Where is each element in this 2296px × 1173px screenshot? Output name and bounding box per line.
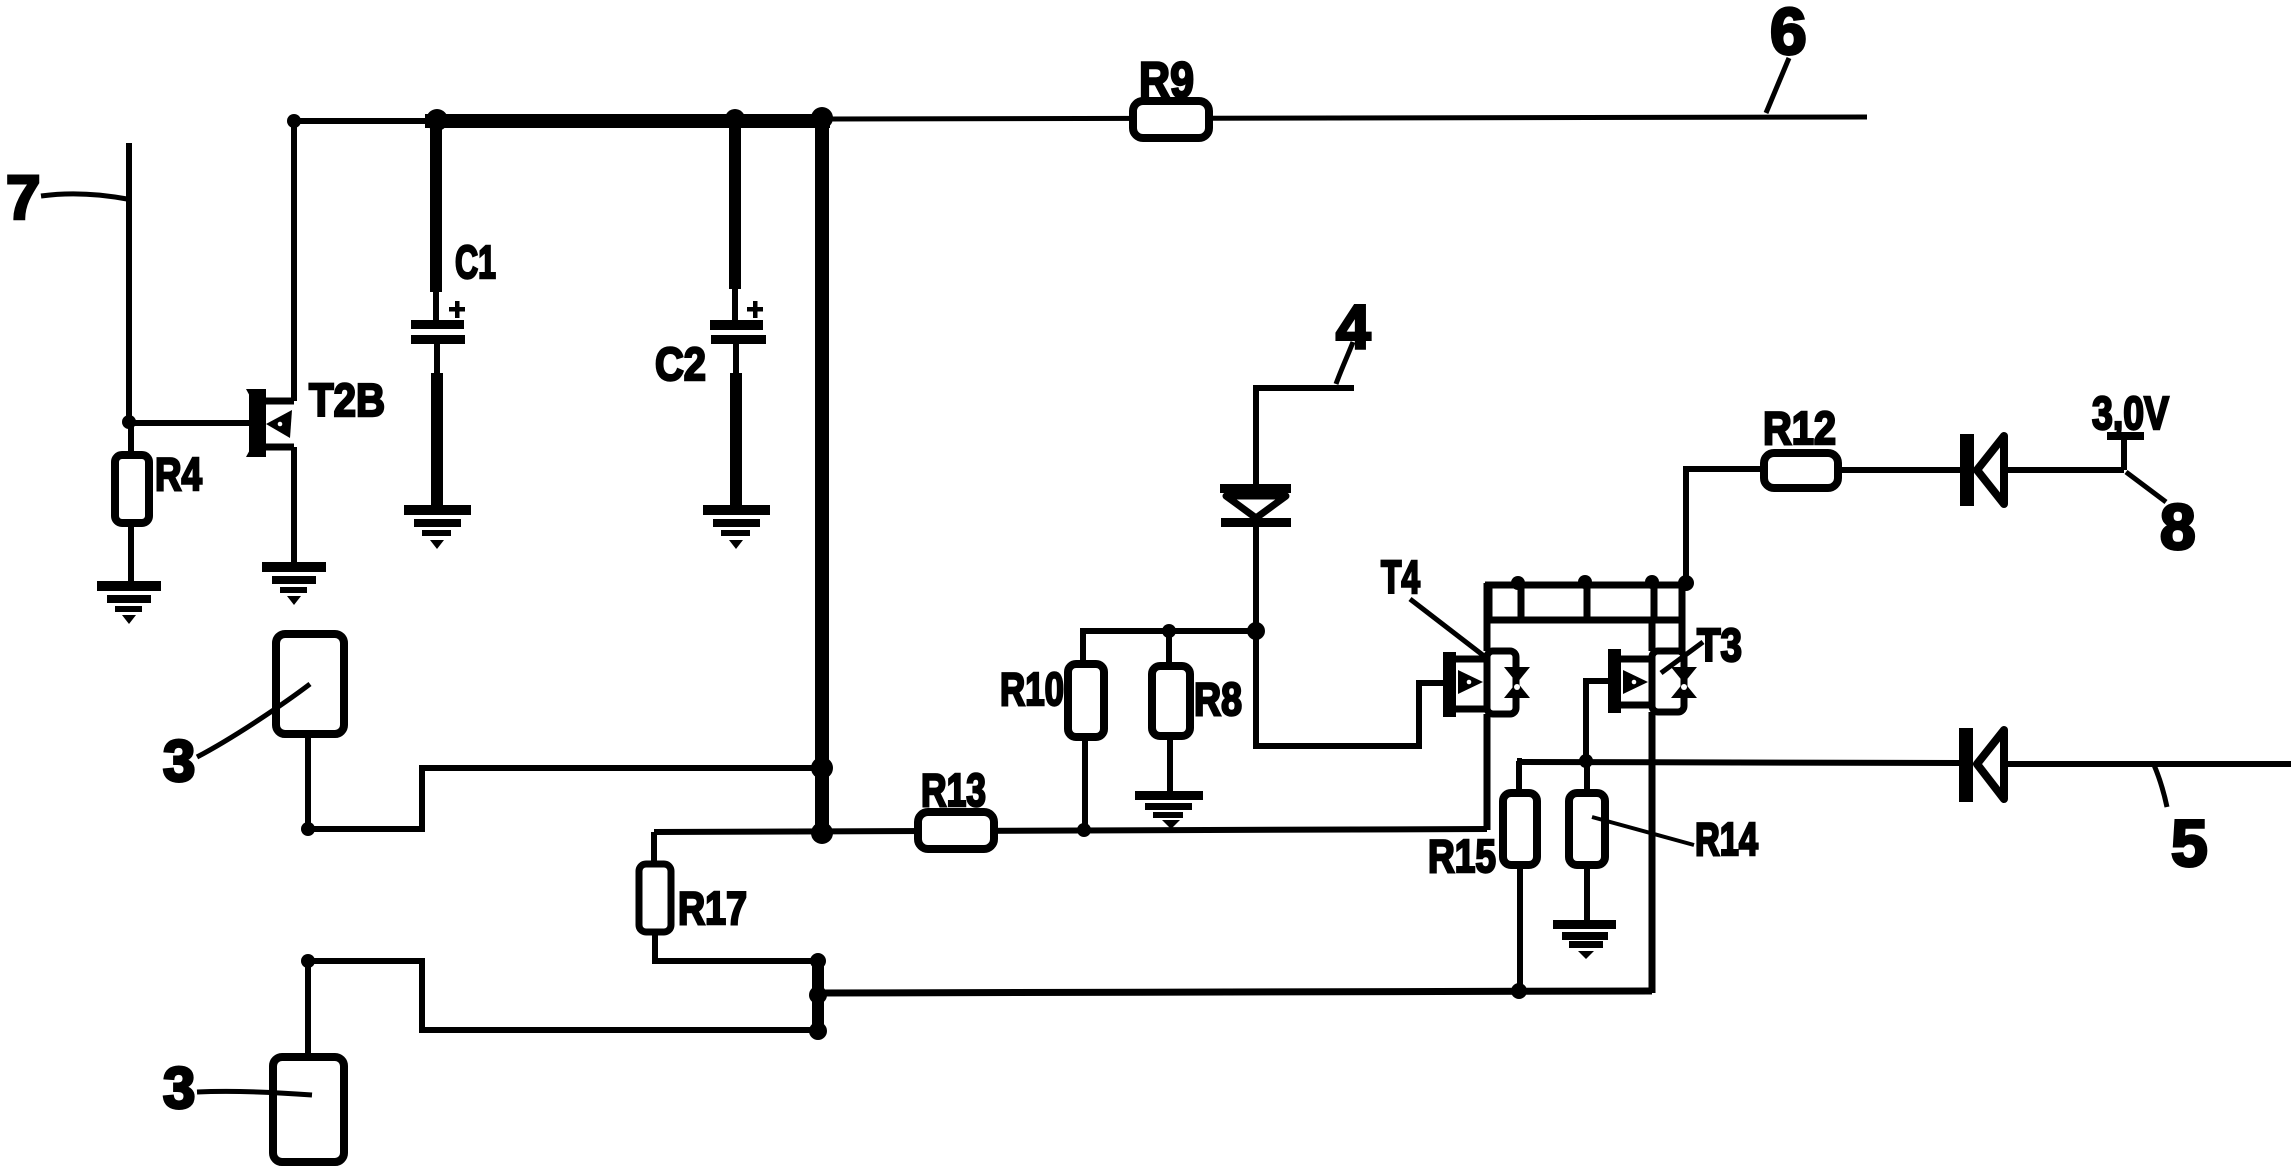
- svg-text:R13: R13: [921, 764, 986, 816]
- junction dots on ladder: [1511, 576, 1525, 590]
- node 6 pointer: [1766, 58, 1789, 113]
- transistor T2B: [246, 121, 385, 564]
- svg-text:3,0V: 3,0V: [2092, 387, 2169, 439]
- ground below R14: [1553, 920, 1616, 959]
- node 7 pointer: [41, 194, 127, 199]
- svg-text:R17: R17: [678, 882, 747, 934]
- node 8 pointer: [2126, 472, 2166, 502]
- wire R13 row horizontal: [654, 829, 1487, 832]
- resistor R17: [639, 832, 818, 961]
- junction dot R10 bottom: [1077, 823, 1091, 837]
- svg-text:4: 4: [1336, 293, 1371, 362]
- junction dot stub bottom: [809, 1022, 827, 1040]
- box 3 lower: [163, 1056, 344, 1162]
- wire bottom bus: [818, 991, 1652, 993]
- svg-text:C2: C2: [655, 338, 706, 390]
- wire node 4: [1256, 388, 1354, 484]
- svg-text:3: 3: [163, 729, 195, 794]
- wire box3 lower to stub: [308, 961, 818, 1057]
- node junction at R4 top: [122, 415, 136, 429]
- junction dot R8 top: [1162, 624, 1176, 638]
- junction dot C2 top: [725, 109, 745, 129]
- resistor R12: [1686, 402, 1961, 585]
- diode D4 (pointing down): [1220, 484, 1291, 634]
- diode D5 (pointing left): [1959, 728, 2291, 802]
- junction dot stub mid: [809, 986, 827, 1004]
- capacitor C1: [411, 121, 496, 506]
- node 5 pointer: [2154, 765, 2167, 807]
- ground below R8: [1135, 791, 1203, 829]
- wire thick stub node: [812, 958, 824, 1037]
- wire top supply bus thin left: [289, 118, 433, 124]
- svg-text:R8: R8: [1194, 673, 1242, 725]
- svg-text:R4: R4: [155, 448, 202, 500]
- junction dot diode node: [1247, 622, 1265, 640]
- junction dot box3 upper corner: [301, 822, 315, 836]
- svg-text:7: 7: [6, 164, 40, 233]
- svg-text:R15: R15: [1428, 830, 1496, 882]
- wire node 7 vertical: [126, 143, 132, 424]
- wire R12-node ladder: [1485, 585, 1690, 623]
- svg-text:3: 3: [163, 1056, 195, 1121]
- wire box3 upper to bus: [308, 734, 820, 829]
- wire node 5 horizontal: [1517, 762, 1959, 763]
- capacitor C2: [655, 121, 766, 506]
- svg-text:R12: R12: [1763, 402, 1836, 454]
- ground below C1: [404, 505, 471, 549]
- wire top bus to R9 and node 6: [828, 117, 1867, 119]
- wire main thick vertical bus: [815, 121, 829, 834]
- junction dot R14 top: [1579, 754, 1593, 768]
- junction dot stub top: [810, 953, 826, 969]
- transistor T4: [1381, 551, 1530, 830]
- svg-text:R9: R9: [1139, 52, 1194, 108]
- ground below C2: [703, 505, 770, 549]
- wire diode node to T4 gate: [1256, 631, 1446, 746]
- box 3 upper: [163, 634, 344, 794]
- svg-text:T4: T4: [1381, 551, 1420, 603]
- svg-text:R10: R10: [1000, 663, 1064, 715]
- ground below T2B: [262, 562, 326, 605]
- wire top supply bus thick: [425, 114, 830, 128]
- junction dot R15 bottom: [1511, 983, 1527, 999]
- svg-text:5: 5: [2171, 806, 2208, 880]
- resistor R13: [918, 764, 994, 849]
- svg-text:R14: R14: [1695, 813, 1758, 865]
- svg-text:T2B: T2B: [309, 374, 385, 426]
- resistor R8: [1152, 631, 1242, 792]
- wire R10 R8 top node: [1083, 631, 1256, 664]
- diode D8 (pointing left): [1960, 434, 2124, 506]
- junction dot thick bus bottom: [811, 822, 833, 844]
- junction dot box3 lower corner: [301, 954, 315, 968]
- resistor R9: [1133, 52, 1209, 138]
- junction dot T2B top: [287, 114, 301, 128]
- wire T3 gate riser: [1586, 681, 1609, 761]
- junction dot C1 top: [426, 109, 448, 131]
- wire base of T2B: [129, 420, 252, 426]
- resistor R14: [1569, 761, 1758, 921]
- junction dot on thick bus: [811, 757, 833, 779]
- svg-text:C1: C1: [455, 236, 496, 288]
- transistor T3: [1608, 619, 1742, 993]
- resistor R10: [1000, 663, 1104, 832]
- resistor R4: [115, 423, 202, 583]
- terminal 30V: [2092, 387, 2169, 470]
- resistor R15: [1428, 761, 1537, 992]
- ground below R4: [97, 581, 161, 624]
- junction dot main bus top: [811, 107, 833, 129]
- svg-text:T3: T3: [1697, 619, 1742, 671]
- node 4 pointer: [1336, 342, 1353, 384]
